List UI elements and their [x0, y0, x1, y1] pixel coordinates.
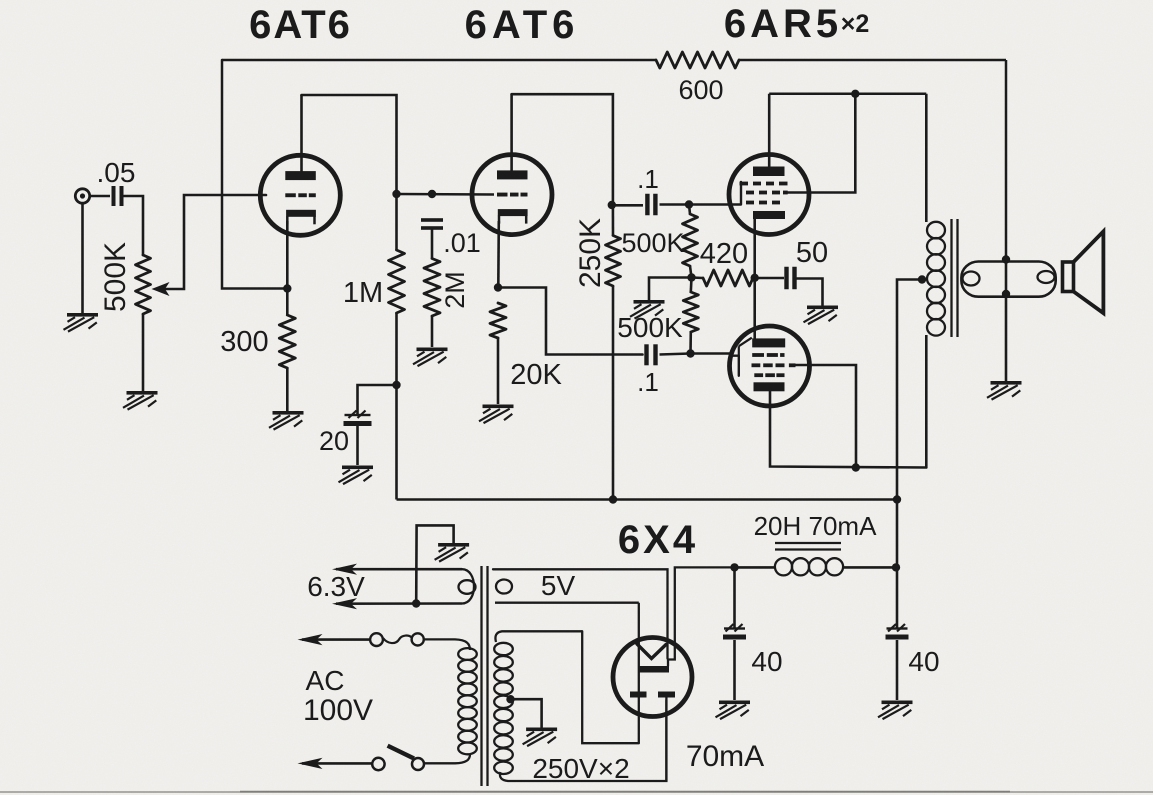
- wire NFB top rail right segment: [739, 59, 1006, 62]
- capacitor .01: [421, 218, 443, 222]
- resistor 1M: [389, 250, 405, 313]
- wire V4 screen lead: [793, 365, 856, 468]
- svg-text:.1: .1: [637, 164, 659, 194]
- resistor 420 cathode bias: [703, 270, 753, 286]
- V5 plates V shape: [637, 644, 666, 659]
- wire 6.3V bottom lead: [336, 602, 462, 605]
- svg-text:AC: AC: [306, 665, 345, 696]
- wire grid line to V2: [397, 193, 495, 196]
- tube V2 6AT6: [472, 155, 552, 235]
- wire mid node to ground: [649, 278, 692, 301]
- wire fuse line: [302, 638, 370, 641]
- wire 6.3V tap to ground: [416, 525, 453, 603]
- input jack: [75, 189, 89, 203]
- wire 5V bottom lead: [495, 602, 639, 604]
- wire V1 plate up: [300, 95, 303, 172]
- ground under jack: [64, 313, 99, 332]
- ground under 20uF: [339, 466, 374, 485]
- wire cathode to 50uF: [755, 277, 784, 280]
- junction choke input: [730, 563, 738, 571]
- wire V4 plate down: [770, 389, 926, 468]
- wire V1 cathode drop: [286, 221, 289, 315]
- transformer OPT primary winding: [927, 222, 945, 239]
- wire V2 plate rail right: [512, 94, 613, 205]
- wire fuse to primary: [424, 639, 470, 650]
- arrow AC bottom: [298, 758, 323, 769]
- capacitor 40uF second: [887, 627, 908, 629]
- wire HV top lead: [495, 631, 582, 642]
- wire 300 to ground: [286, 368, 289, 411]
- speaker magnet: [1063, 262, 1074, 292]
- svg-text:.05: .05: [97, 157, 136, 188]
- speaker voice coil: [961, 262, 1055, 297]
- wire choke right lead: [843, 566, 896, 569]
- svg-text:×2: ×2: [841, 10, 870, 38]
- junction 6.3V ground tap: [412, 599, 420, 607]
- wire V2 plate up: [510, 94, 513, 171]
- wire node to 20uF cap: [358, 385, 397, 414]
- wire 500K lower top lead: [689, 278, 692, 293]
- ground under first 40uF: [716, 701, 751, 720]
- wire 5V lead through left heater: [638, 603, 640, 744]
- wire lower grid node to V4: [691, 352, 731, 355]
- svg-text:6AT6: 6AT6: [249, 3, 352, 47]
- wire 50uF to ground: [797, 279, 823, 306]
- junction upper grid node: [685, 200, 693, 208]
- wire NFB left drop to first cathode: [222, 60, 287, 289]
- tube V5 6X4: [613, 638, 692, 717]
- wire 500K upper top lead: [689, 205, 690, 215]
- wire 420 left lead: [692, 276, 704, 279]
- wire HV center tap to ground: [511, 699, 542, 727]
- svg-text:250V×2: 250V×2: [532, 753, 629, 784]
- ground of 6.3V winding: [435, 543, 470, 562]
- ground at bias node: [630, 300, 665, 319]
- wire cathode node to V4 cathode: [753, 278, 756, 340]
- tube V1 6AT6: [260, 155, 340, 235]
- wire B+ rail: [397, 498, 898, 501]
- wire NFB right drop to voice coil: [1005, 60, 1008, 258]
- ground under second 40uF: [878, 701, 913, 720]
- speaker cone: [1074, 231, 1104, 313]
- junction 250K at B+ rail: [609, 495, 617, 503]
- scan edge line at bottom: [0, 791, 1153, 793]
- junction .01 node: [428, 190, 436, 198]
- wire 250K down to B+ rail: [612, 286, 615, 500]
- svg-text:20K: 20K: [510, 359, 562, 391]
- svg-text:50: 50: [796, 237, 828, 269]
- junction OPT center tap: [918, 275, 926, 283]
- wire switch to primary: [423, 754, 470, 763]
- switch: [372, 758, 384, 770]
- wire wiper to grid of V1: [166, 195, 266, 289]
- junction V2 plate node: [608, 201, 616, 209]
- svg-text:6X4: 6X4: [618, 518, 698, 562]
- wire .1 lower to grid node: [660, 354, 691, 355]
- arrow 6.3V bottom: [332, 598, 357, 609]
- wire center tap to B+ riser: [897, 280, 922, 500]
- ground under 50uF: [804, 306, 839, 325]
- svg-text:6AR5: 6AR5: [724, 2, 842, 46]
- svg-text:6AT6: 6AT6: [465, 3, 580, 47]
- svg-text:6.3V: 6.3V: [307, 571, 365, 602]
- wire grid node to V3: [689, 203, 730, 206]
- ground under 20K: [479, 405, 514, 424]
- junction bias mid node: [687, 273, 695, 281]
- wire jack ground drop: [81, 202, 84, 313]
- svg-text:500K: 500K: [621, 228, 684, 258]
- svg-text:20: 20: [319, 426, 349, 456]
- wire HV bottom lead: [500, 772, 508, 781]
- wire 2M to ground: [431, 316, 434, 347]
- resistor 500K lower: [683, 292, 698, 332]
- ground of HV center tap: [523, 728, 558, 747]
- wire cathode to lower coupling cap: [498, 288, 643, 355]
- wire NFB top rail left segment: [222, 59, 656, 62]
- svg-text:600: 600: [678, 75, 723, 105]
- wire 1M bottom lead: [395, 313, 398, 385]
- wire choke left lead: [735, 566, 777, 569]
- wire B+ riser to choke node: [896, 500, 899, 568]
- tube V4 6AR5 lower: [730, 326, 810, 406]
- voice coil left loop: [963, 272, 980, 286]
- junction V2 cathode node: [494, 283, 502, 291]
- svg-text:1M: 1M: [343, 277, 383, 309]
- svg-text:70mA: 70mA: [686, 740, 764, 773]
- wire V1 plate rail to 1M node: [302, 95, 397, 194]
- junction lower grid node: [686, 349, 694, 357]
- wire 500K upper bottom lead: [690, 266, 692, 278]
- junction V1 cathode node: [283, 284, 291, 292]
- junction voice coil bottom: [1002, 290, 1010, 298]
- wire 250K top lead: [612, 205, 615, 236]
- svg-text:20H 70mA: 20H 70mA: [754, 511, 877, 541]
- HV winding 250Vx2: [494, 643, 513, 655]
- wire 1M top lead: [395, 194, 398, 250]
- wire plate node to .1 cap: [613, 204, 643, 207]
- choke 20H winding: [775, 558, 792, 575]
- junction plate node V1: [392, 190, 400, 198]
- wire .01 to 2M: [431, 228, 434, 259]
- primary winding AC: [458, 648, 477, 660]
- voice coil right loop: [1038, 271, 1055, 283]
- resistor 600 in NFB line: [656, 52, 739, 68]
- wire cap to pot top: [124, 196, 143, 255]
- rectifier winding 5V: [496, 580, 512, 594]
- capacitor .1 upper: [645, 194, 649, 216]
- V5 heater left: [630, 692, 647, 698]
- wire V2 cathode drop: [497, 221, 500, 288]
- junction shared cathode node: [751, 274, 759, 282]
- wire V3 plate up: [768, 94, 771, 167]
- svg-text:40: 40: [751, 646, 782, 677]
- junction HV center tap: [506, 695, 514, 703]
- wire B+ takeoff from cathode: [668, 567, 735, 666]
- resistor 20K: [490, 303, 506, 338]
- wire pot bottom to ground: [142, 314, 145, 391]
- fuse: [370, 633, 383, 646]
- wire right heater down: [665, 698, 667, 782]
- svg-text:100V: 100V: [303, 694, 373, 727]
- svg-text:250K: 250K: [574, 218, 607, 288]
- wire choke input down to 40uF: [733, 567, 736, 628]
- wire jack to cap: [89, 195, 110, 198]
- capacitor 40uF first: [724, 627, 745, 629]
- resistor 2M: [424, 259, 440, 317]
- wire OPT primary top lead: [925, 94, 928, 222]
- wiper arrow of potentiometer: [152, 282, 170, 296]
- junction choke output: [892, 563, 900, 571]
- wire voice coil to ground: [1005, 294, 1008, 381]
- svg-text:.01: .01: [443, 228, 481, 258]
- potentiometer 500K: [136, 255, 151, 314]
- tube V3 6AR5 upper: [729, 155, 809, 235]
- transformer PT core: [480, 566, 482, 786]
- arrow AC top: [298, 634, 323, 645]
- wire through voice coil: [1005, 260, 1008, 295]
- wire 40uF second to ground: [896, 640, 899, 700]
- junction voice coil top: [1002, 255, 1010, 263]
- svg-text:420: 420: [700, 238, 748, 270]
- capacitor 50uF: [784, 267, 788, 290]
- resistor 500K upper: [683, 214, 698, 266]
- wire 40uF first to ground: [733, 640, 736, 700]
- wire 5V top lead: [493, 569, 668, 658]
- svg-text:500K: 500K: [99, 242, 132, 312]
- wire 1M node down to B+ rail: [395, 385, 398, 500]
- capacitor 20uF electrolytic: [345, 414, 371, 416]
- capacitor .1 lower: [644, 344, 648, 365]
- wire V3 cathode drop: [753, 218, 756, 278]
- wire 20K to ground: [497, 338, 500, 404]
- V5 cathode bar: [638, 666, 669, 673]
- junction B+ branch node: [392, 381, 400, 389]
- junction screen node lower: [852, 463, 860, 471]
- svg-text:300: 300: [220, 326, 268, 358]
- wire 500K lower bottom lead: [689, 332, 692, 354]
- wire switch line: [302, 762, 373, 765]
- svg-text:.1: .1: [637, 367, 659, 397]
- svg-text:2M: 2M: [440, 271, 470, 309]
- ground under voice coil: [987, 381, 1022, 400]
- resistor 250K: [606, 236, 621, 287]
- svg-text:500K: 500K: [617, 312, 683, 343]
- wire plate rail to OPT top: [769, 93, 926, 96]
- choke core: [775, 542, 841, 544]
- svg-text:5V: 5V: [541, 570, 576, 601]
- wire OPT primary bottom lead: [925, 335, 928, 468]
- wire .1 to grid node: [660, 203, 690, 206]
- wire V3 screen lead: [788, 94, 856, 193]
- ground under 300: [269, 411, 304, 430]
- wire 20uF to ground: [356, 426, 359, 465]
- junction B+ rail end: [893, 495, 901, 503]
- svg-text:40: 40: [908, 646, 939, 677]
- capacitor .05: [112, 186, 116, 206]
- V5 heater right: [658, 692, 675, 698]
- arrow 6.3V top: [332, 564, 357, 575]
- junction screen node upper: [851, 90, 859, 98]
- ground under potentiometer: [123, 391, 158, 410]
- wire choke output down to 40uF: [896, 567, 899, 628]
- wire 6.3V top lead: [336, 568, 462, 571]
- transformer OPT core: [950, 219, 952, 337]
- resistor 300: [279, 315, 295, 368]
- heater winding 6.3V: [462, 569, 474, 603]
- ground under 2M: [413, 348, 448, 367]
